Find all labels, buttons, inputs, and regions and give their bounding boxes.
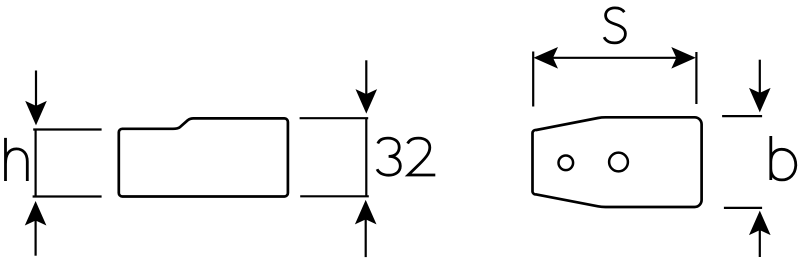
dimension h bottom arrow [25,201,47,256]
side view outline [119,118,288,196]
dimension h vertical line [34,130,36,197]
dimension 32 bottom arrow [355,200,377,257]
label h [6,138,28,181]
dimension h top arrow [25,71,47,126]
dimension b bottom arrow [749,211,771,257]
dimension 32 extension line bottom [300,195,369,197]
dimension S right arrow [671,47,696,69]
dimension b extension line top [722,115,762,117]
dimension h extension line top [33,128,101,130]
label b [771,136,796,180]
dimension S extension line right [695,52,697,104]
dimension b extension line bottom [724,207,762,209]
dimension S left arrow [534,47,559,69]
dimension S line [550,57,679,59]
dimension h extension line bottom [33,195,102,197]
dimension 32 top arrow [356,60,378,113]
label 32 [377,138,435,175]
hole large [609,153,628,172]
label S [604,8,625,43]
top view outline [532,117,701,207]
dimension b top arrow [749,60,771,113]
dimension S extension line left [532,52,534,107]
hole small [559,156,574,171]
dimension 32 vertical line [365,118,367,196]
dimension 32 extension line top [300,117,369,119]
